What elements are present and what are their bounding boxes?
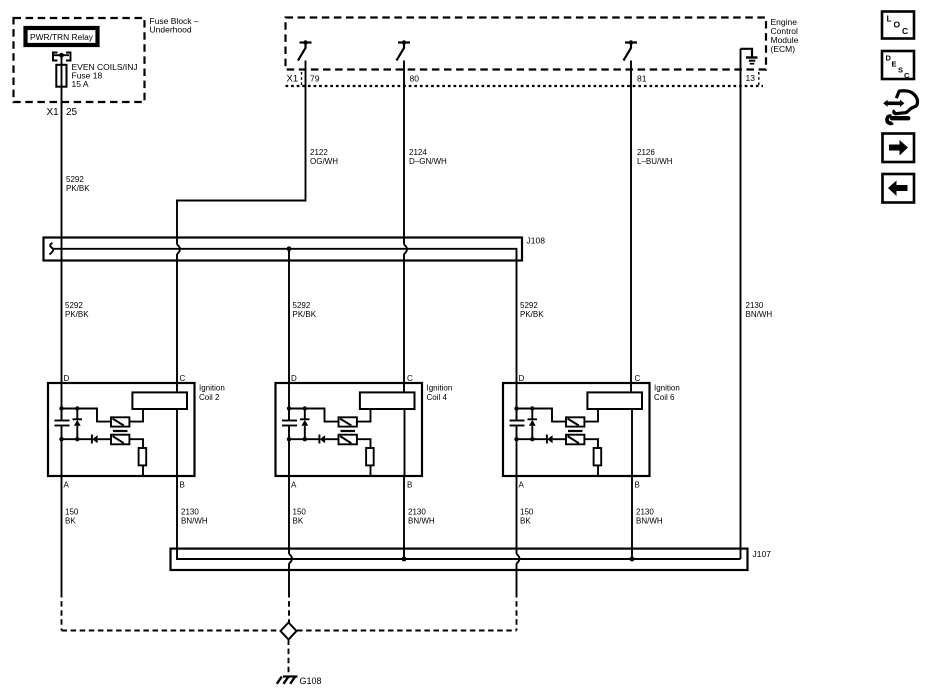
node diode bottom junction (303, 437, 307, 441)
svg-text:D: D (64, 374, 70, 383)
wire hop over J107 bus bar (289, 554, 292, 564)
ground G108 symbol (277, 677, 298, 684)
svg-text:L–BU/WH: L–BU/WH (637, 157, 673, 166)
svg-text:81: 81 (637, 74, 647, 84)
svg-text:E: E (892, 60, 897, 69)
svg-text:79: 79 (310, 74, 320, 84)
node diode bottom junction (75, 437, 79, 441)
ignition coil 4 box U4 (276, 374, 453, 490)
svg-text:2122: 2122 (310, 148, 328, 157)
wire 2130 BN/WH pin13 to J107 (740, 49, 742, 559)
label fuse (72, 62, 138, 89)
svg-text:13: 13 (746, 73, 756, 83)
icon DESC button (882, 51, 914, 80)
svg-text:2124: 2124 (409, 148, 427, 157)
wire top rail to primary winding (517, 409, 567, 422)
wire primary winding to module block (584, 409, 598, 422)
wire cap to rails (288, 409, 290, 440)
svg-text:2130: 2130 (181, 508, 199, 517)
svg-text:D: D (519, 374, 525, 383)
wire winding to resistor (584, 439, 598, 448)
svg-text:B: B (180, 481, 185, 490)
label 5292 PK/BK (coil6) (520, 301, 544, 319)
svg-text:Ignition: Ignition (654, 384, 680, 393)
wire 150 BK coil2 A dashed to ground line (61, 592, 63, 631)
svg-text:5292: 5292 (66, 175, 84, 184)
label 2130 BN/WH (746, 301, 773, 319)
svg-text:C: C (902, 26, 908, 36)
secondary winding T1b (111, 435, 129, 445)
svg-text:OG/WH: OG/WH (310, 157, 338, 166)
node splice diamond (281, 623, 297, 640)
svg-text:C: C (407, 374, 413, 383)
primary winding T1a (339, 417, 357, 426)
icon wrench / vehicle fit (883, 91, 917, 125)
resistor R1 (139, 448, 147, 465)
node diode top junction (530, 406, 534, 410)
wire relay to fuse block exit (x1=61.5) (61, 55, 63, 237)
label 2130 BN/WH (coil6 B) (636, 508, 663, 526)
node J107 coil6 B (630, 557, 635, 562)
svg-text:2130: 2130 (636, 508, 654, 517)
wire cap to rails (61, 409, 63, 440)
splice pack J107 box (171, 549, 748, 570)
label Fuse Block - Underhood (150, 16, 199, 35)
ground symbol inside ECM at pin 13 (741, 49, 758, 64)
dashed ground bus left segment (62, 630, 281, 632)
J108 bus bar (53, 249, 517, 261)
svg-text:Coil 2: Coil 2 (199, 393, 220, 402)
ignition coil 2 box U2 (48, 374, 225, 490)
label 5292 PK/BK (coil4) (293, 301, 317, 319)
wire 150 BK coil6 A down (516, 439, 518, 554)
node D rail junction (514, 406, 518, 410)
wire 150 BK coil2 A down (61, 439, 63, 592)
wire winding to resistor (129, 439, 143, 448)
svg-text:J108: J108 (527, 236, 546, 246)
svg-text:PWR/TRN Relay: PWR/TRN Relay (30, 33, 93, 42)
icon LOC button (882, 12, 914, 39)
svg-text:PK/BK: PK/BK (66, 184, 90, 193)
wire 5292 PK/BK J108 to coil4 D (288, 249, 290, 421)
svg-text:5292: 5292 (520, 301, 538, 310)
driver Q2 (ECM low-side driver pin 80) (397, 40, 411, 60)
wire top rail to primary winding (289, 409, 339, 422)
svg-text:S: S (898, 66, 903, 75)
wire bottom rail (289, 438, 319, 440)
diode D1 (zener, vertical) (73, 409, 83, 440)
label 2130 BN/WH (coil4 B) (408, 508, 435, 526)
svg-text:25: 25 (66, 107, 78, 118)
svg-text:BN/WH: BN/WH (636, 517, 663, 526)
svg-text:Coil 4: Coil 4 (427, 393, 448, 402)
svg-text:2126: 2126 (637, 148, 655, 157)
svg-text:5292: 5292 (65, 301, 83, 310)
label 150 BK (coil6 A) (520, 508, 534, 526)
driver Q3 (ECM low-side driver pin 81) (624, 40, 638, 60)
relay K PWR/TRN Relay (26, 28, 98, 45)
ignition coil 6 box U6 (503, 374, 680, 490)
capacitor C (noise suppression) (282, 421, 297, 426)
splice squiggle left end of J108 bus bar (50, 243, 54, 255)
svg-text:L: L (887, 14, 892, 24)
svg-text:X1: X1 (47, 107, 60, 118)
wire resistor to case (370, 465, 372, 476)
module block (coil driver module) (132, 392, 187, 409)
svg-text:A: A (291, 481, 297, 490)
node diode top junction (75, 406, 79, 410)
wire primary winding to module block (357, 409, 371, 422)
svg-text:80: 80 (410, 74, 420, 84)
label 2122 OG/WH (310, 148, 338, 166)
ECM connector dotted line (286, 85, 764, 87)
pin X1 25 of fuse block (47, 107, 78, 118)
wire primary winding to module block (129, 409, 143, 422)
wire 150 BK coil4 A down (288, 439, 290, 554)
svg-text:2130: 2130 (408, 508, 426, 517)
secondary winding T1b (339, 435, 357, 445)
svg-text:BN/WH: BN/WH (181, 517, 208, 526)
svg-text:150: 150 (520, 508, 534, 517)
label 5292 PK/BK (coil2) (65, 301, 89, 319)
connector separator dash (301, 72, 303, 86)
svg-text:O: O (894, 20, 901, 30)
capacitor C (noise suppression) (55, 421, 70, 426)
svg-text:2130: 2130 (746, 301, 764, 310)
wire 5292 PK/BK continuation to coil2 D (61, 238, 63, 421)
wire 2130 BN/WH coil2 B into J107 bus bar (177, 476, 741, 559)
node relay-fuse junction (59, 53, 64, 58)
svg-text:C: C (635, 374, 641, 383)
capacitor C (noise suppression) (510, 421, 525, 426)
wire 2124 D-GN/WH pin80 to coil4 C (403, 61, 405, 245)
wire hop over J107 bus bar (517, 554, 520, 564)
label 150 BK (coil4 A) (293, 508, 307, 526)
svg-text:Ignition: Ignition (427, 384, 453, 393)
fuse F18 EVEN COILS/INJ 15A (56, 65, 66, 87)
svg-text:PK/BK: PK/BK (520, 310, 544, 319)
svg-text:15 A: 15 A (72, 79, 89, 89)
splice pack J108 box (44, 238, 523, 261)
node J107 coil4 B (402, 557, 407, 562)
secondary winding T1b (566, 435, 584, 445)
wire module to pin B (176, 409, 178, 476)
resistor R1 (366, 448, 374, 465)
node J108 to coil4 D (287, 246, 292, 251)
svg-text:A: A (64, 481, 70, 490)
svg-text:150: 150 (293, 508, 307, 517)
wire bottom rail (517, 438, 547, 440)
wire bottom rail (62, 438, 92, 440)
wire 2126 L-BU/WH pin81 to coil6 C (630, 61, 632, 393)
wire module to pin B (631, 409, 633, 476)
driver Q1 (ECM low-side driver pin 79) (298, 40, 312, 60)
node A rail junction (287, 437, 291, 441)
label 2124 D-GN/WH (409, 148, 447, 166)
svg-text:BK: BK (293, 517, 304, 526)
ECM dashed box (286, 18, 767, 70)
svg-text:A: A (519, 481, 525, 490)
node diode top junction (303, 406, 307, 410)
wire 2130 BN/WH coil4 B to J107 (403, 476, 405, 559)
node A rail junction (59, 437, 63, 441)
label 2126 L-BU/WH (637, 148, 673, 166)
svg-text:B: B (407, 481, 412, 490)
wire hop over J108 bus bar (177, 245, 180, 255)
svg-text:Ignition: Ignition (199, 384, 225, 393)
module block (coil driver module) (587, 392, 642, 409)
resistor R1 (594, 448, 602, 465)
module block (coil driver module) (360, 392, 415, 409)
svg-text:Underhood: Underhood (150, 25, 192, 35)
dashed ground bus right segment (297, 630, 517, 632)
wire 150 BK coil4 A dashed to diamond (288, 592, 290, 623)
relay output terminal clips (53, 53, 71, 61)
connector separator dash right (758, 72, 760, 86)
svg-text:J107: J107 (753, 549, 772, 559)
wire 5292 PK/BK J108 to coil6 D (516, 261, 518, 421)
label Engine Control Module (ECM) (771, 17, 799, 54)
diode D2 (horizontal) (319, 435, 338, 444)
wire 150 BK coil6 A dashed to ground line (516, 592, 518, 631)
svg-text:5292: 5292 (293, 301, 311, 310)
svg-text:D: D (291, 374, 297, 383)
diode D2 (horizontal) (92, 435, 111, 444)
svg-text:BN/WH: BN/WH (746, 310, 773, 319)
label 150 BK (coil2 A) (65, 508, 79, 526)
wire 2122 OG/WH pin79 to coil2 C (with jog) (177, 61, 306, 245)
primary winding T1a (111, 417, 129, 426)
svg-text:150: 150 (65, 508, 79, 517)
svg-text:X1: X1 (287, 74, 299, 85)
svg-text:PK/BK: PK/BK (65, 310, 89, 319)
node diode bottom junction (530, 437, 534, 441)
svg-text:G108: G108 (300, 676, 322, 686)
primary winding T1a (566, 417, 584, 426)
fuse block underhood dashed box (14, 18, 145, 102)
wire top rail to primary winding (62, 409, 112, 422)
core bar (568, 430, 583, 432)
wire hop over J108 bus bar (404, 245, 407, 255)
wire 5292 PK/BK fuse feed label (upper) (66, 175, 90, 193)
wire winding to resistor (357, 439, 371, 448)
svg-text:C: C (180, 374, 186, 383)
wire 2130 BN/WH coil6 B to J107 (631, 476, 633, 559)
wire resistor to case (597, 465, 599, 476)
svg-text:B: B (635, 481, 640, 490)
diode D1 (zener, vertical) (528, 409, 538, 440)
icon forward arrow button (883, 134, 915, 163)
svg-text:Coil 6: Coil 6 (654, 393, 675, 402)
wire cap to rails (516, 409, 518, 440)
wire resistor to case (142, 465, 144, 476)
svg-text:BK: BK (520, 517, 531, 526)
svg-text:BN/WH: BN/WH (408, 517, 435, 526)
diode D1 (zener, vertical) (300, 409, 310, 440)
icon back arrow button (883, 174, 915, 203)
node A rail junction (514, 437, 518, 441)
label 2130 BN/WH (coil2 B) (181, 508, 208, 526)
wire module to pin B (404, 409, 406, 476)
core bar (341, 430, 356, 432)
svg-text:PK/BK: PK/BK (293, 310, 317, 319)
core bar (113, 430, 128, 432)
node D rail junction (287, 406, 291, 410)
svg-text:C: C (904, 71, 910, 80)
wire dashed diamond to G108 (288, 640, 290, 675)
svg-text:BK: BK (65, 517, 76, 526)
svg-text:(ECM): (ECM) (771, 44, 796, 54)
svg-text:D–GN/WH: D–GN/WH (409, 157, 447, 166)
node D rail junction (59, 406, 63, 410)
diode D2 (horizontal) (547, 435, 566, 444)
